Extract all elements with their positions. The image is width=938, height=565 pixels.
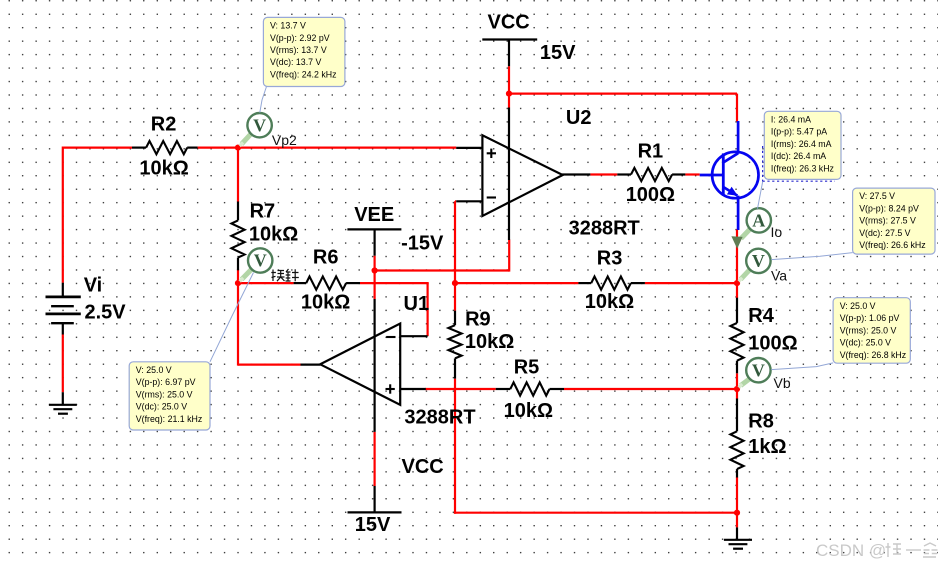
svg-text:R1: R1 [638,140,664,162]
svg-text:Vb: Vb [774,375,791,391]
pin U1 minus input [400,335,427,337]
svg-text:V(p-p): 8.24 pV: V(p-p): 8.24 pV [859,203,919,213]
svg-text:R4: R4 [748,305,774,327]
pin R8 top [736,399,738,432]
wire Vp2 node down to R7 [237,148,239,202]
svg-text:R9: R9 [465,308,491,330]
svg-text:-15V: -15V [401,233,444,255]
pin R1 right [672,173,685,175]
wire VCC pin [508,66,510,94]
resistor R8 body [730,431,743,469]
resistor R5 body [510,382,549,395]
ground bottom right [724,527,752,548]
pin R2 left [132,147,146,149]
svg-text:VCC: VCC [488,11,530,33]
svg-text:15V: 15V [355,514,391,536]
wire U2 out to R1 [590,173,617,175]
svg-text:V: 25.0 V: V: 25.0 V [840,301,876,311]
tooltip Vb [833,298,910,364]
wire left vertical to battery [62,147,64,283]
svg-text:VEE: VEE [354,204,394,226]
wire VCC rail to collector [508,92,737,94]
pin U1 plus input [400,388,426,390]
probe V Vp2 [240,113,272,146]
svg-text:V: 13.7 V: V: 13.7 V [270,21,306,31]
wire bottom rail [454,512,737,514]
pin U1 pos supply to 15V bar [374,486,376,512]
resistor R1 body [631,168,672,181]
wire R6 to U1 minus riser [360,282,429,284]
tooltip Vp2 [263,17,345,86]
op-amp U2 [482,135,562,216]
pin R5 left [496,388,511,390]
pin U2 supply vertical [508,108,510,241]
wire R2 to U2 plus (node Vp2) [198,147,457,149]
leader line tanzhen tooltip [210,273,254,362]
svg-text:I(dc): 26.4 mA: I(dc): 26.4 mA [771,151,826,161]
wire R3 to node Va [645,282,738,284]
wire U1 output riser [237,282,239,366]
wire U2 minus down to node [454,201,456,284]
junction probe node [235,280,241,286]
svg-text:3288RT: 3288RT [404,406,475,428]
svg-text:V(p-p): 2.92 pV: V(p-p): 2.92 pV [270,33,330,43]
pin R4 bottom [736,361,738,374]
svg-text:VCC: VCC [402,456,444,478]
pin R1 left [617,173,631,175]
pin R6 right [346,282,360,284]
svg-text:V: V [253,115,266,135]
wire U1 output [238,364,301,366]
svg-text:I(rms): 26.4 mA: I(rms): 26.4 mA [771,139,832,149]
resistor R3 body [591,277,631,290]
wire VEE vertical [374,256,376,299]
pin R3 right [631,282,645,284]
pin U1 neg supply [374,299,376,324]
svg-text:Vp2: Vp2 [272,132,297,148]
pin R3 left [578,282,591,284]
leader line Va tooltip [771,253,852,260]
svg-text:R2: R2 [151,114,177,136]
resistor R9 body [448,325,461,358]
svg-text:Io: Io [771,224,783,240]
wire corner [455,200,456,202]
svg-text:V(rms): 25.0 V: V(rms): 25.0 V [840,325,897,335]
pin R4 top [736,298,738,323]
svg-text:V: 25.0 V: V: 25.0 V [136,365,172,375]
leader line Vb tooltip [771,363,833,370]
svg-text:V(p-p): 1.06 pV: V(p-p): 1.06 pV [840,313,900,323]
pin R7 bottom [237,258,239,271]
junction VEE rail [372,267,378,273]
wire R7 to probe node [237,269,239,284]
junction ground node [734,510,740,516]
junction node Va [734,280,740,286]
svg-text:V(freq): 21.1 kHz: V(freq): 21.1 kHz [136,414,203,424]
svg-text:V(freq): 26.8 kHz: V(freq): 26.8 kHz [840,350,907,360]
svg-text:2.5V: 2.5V [85,302,127,324]
wire node to R3 [455,282,578,284]
wire R8 to ground node [736,477,738,527]
wire VCC to U2 supply [508,93,510,108]
svg-text:U1: U1 [404,293,430,315]
U1 minus mark [386,336,395,338]
wire node to R9 [454,283,456,311]
tooltip tanzhen [129,362,210,430]
resistor R6 body [306,277,346,290]
pin R2 right [187,147,197,149]
wire R5 to node Vb [564,388,738,390]
svg-text:I(p-p): 5.47 pA: I(p-p): 5.47 pA [771,127,827,137]
pin U2 minus input [456,200,482,202]
power VCC bottom [348,511,402,513]
svg-text:3288RT: 3288RT [569,217,640,239]
svg-text:10kΩ: 10kΩ [504,400,553,422]
svg-text:10kΩ: 10kΩ [139,157,188,179]
probe V Vb [739,358,771,388]
wire U1 plus to R5 [425,388,496,390]
resistor R2 body [146,141,187,154]
wire node to R6 [237,282,294,284]
probe V Va [739,249,771,282]
svg-text:R5: R5 [514,357,540,379]
svg-text:V(rms): 25.0 V: V(rms): 25.0 V [136,389,193,399]
svg-text:V(dc): 25.0 V: V(dc): 25.0 V [136,402,187,412]
svg-text:V: V [752,360,765,380]
wire R9 to bottom rail [454,379,456,514]
ground battery [49,392,77,414]
wire collector riser [736,94,738,122]
transistor Q1 (NPN, blue) [700,121,759,230]
Q1 emitter arrow [727,187,738,196]
svg-text:Va: Va [771,268,787,284]
svg-text:U2: U2 [566,107,592,129]
wire U1 pos supply to VCC [374,432,376,486]
probe A Io [731,208,771,249]
power VCC top [482,38,537,40]
svg-text:1kΩ: 1kΩ [748,436,786,458]
svg-text:100Ω: 100Ω [748,332,797,354]
wire R4 to Vb node to R8 [736,373,738,399]
svg-text:V(freq): 26.6 kHz: V(freq): 26.6 kHz [859,240,926,250]
pin U1 supply through body [374,324,376,432]
U2 minus mark [487,196,496,198]
wire Vi to R2 [63,147,132,149]
op-amp U1 [320,324,400,405]
pin R9 top [454,311,456,326]
pin U2 plus input [456,147,482,149]
svg-text:10kΩ: 10kΩ [301,292,350,314]
svg-text:V: V [752,251,765,271]
svg-text:V(dc): 13.7 V: V(dc): 13.7 V [270,57,321,67]
junction R9 R3 U2- [452,280,458,286]
U2 plus mark [487,152,496,154]
leader line Io tooltip [758,181,763,209]
svg-text:V(rms): 13.7 V: V(rms): 13.7 V [270,45,327,55]
svg-text:V: 27.5 V: V: 27.5 V [859,191,895,201]
wire R1 to base [685,173,699,175]
junction VCC rail [506,91,512,97]
svg-text:Vi: Vi [84,275,103,297]
svg-text:V(dc): 25.0 V: V(dc): 25.0 V [840,338,891,348]
pin R7 top [237,202,239,221]
svg-text:V(rms): 27.5 V: V(rms): 27.5 V [859,216,916,226]
wire U2 neg supply drop [508,240,510,272]
svg-text:100Ω: 100Ω [626,184,675,206]
leader line Vp2 tooltip [260,87,267,113]
svg-text:V(p-p): 6.97 pV: V(p-p): 6.97 pV [136,377,196,387]
svg-text:10kΩ: 10kΩ [585,291,634,313]
tooltip Io [764,111,841,179]
svg-text:15V: 15V [540,42,576,64]
svg-text:10kΩ: 10kΩ [465,331,514,353]
junction node Vp2 [235,145,241,151]
wire emitter to Va node to R4 [736,229,738,298]
pin U1 output [301,364,321,366]
svg-text:V(freq): 24.2 kHz: V(freq): 24.2 kHz [270,70,337,80]
tooltip Va [853,188,935,254]
wire battery to ground [62,335,64,393]
pin R9 bottom [454,358,456,378]
power VEE [347,228,401,230]
svg-text:CSDN @: CSDN @ [816,541,886,560]
svg-text:R6: R6 [313,246,339,268]
resistor R4 body [730,323,743,361]
pin U2 output [562,173,591,175]
svg-text:A: A [752,211,765,231]
pin R6 left [294,282,307,284]
net label tanzhen (CJK) [271,269,299,281]
svg-text:V: V [254,251,267,271]
svg-text:10kΩ: 10kΩ [249,224,298,246]
svg-text:R3: R3 [597,248,623,270]
pin R8 bottom [736,469,738,477]
svg-text:R8: R8 [748,411,774,433]
battery Vi [46,283,81,335]
svg-text:I: 26.4 mA: I: 26.4 mA [771,114,811,124]
resistor R7 body [231,220,244,257]
pin R5 right [550,388,565,390]
wire VEE rail to U2 neg supply [374,269,510,271]
svg-text:V(dc): 27.5 V: V(dc): 27.5 V [859,228,910,238]
probe V tanzhen [240,248,273,281]
wire U1 minus riser vertical [427,283,429,336]
svg-text:I(freq): 26.3 kHz: I(freq): 26.3 kHz [771,163,834,173]
junction node Vb [734,386,740,392]
svg-text:R7: R7 [250,201,276,223]
selection dashes Io tooltip [763,146,835,181]
U1 plus mark [386,388,395,390]
